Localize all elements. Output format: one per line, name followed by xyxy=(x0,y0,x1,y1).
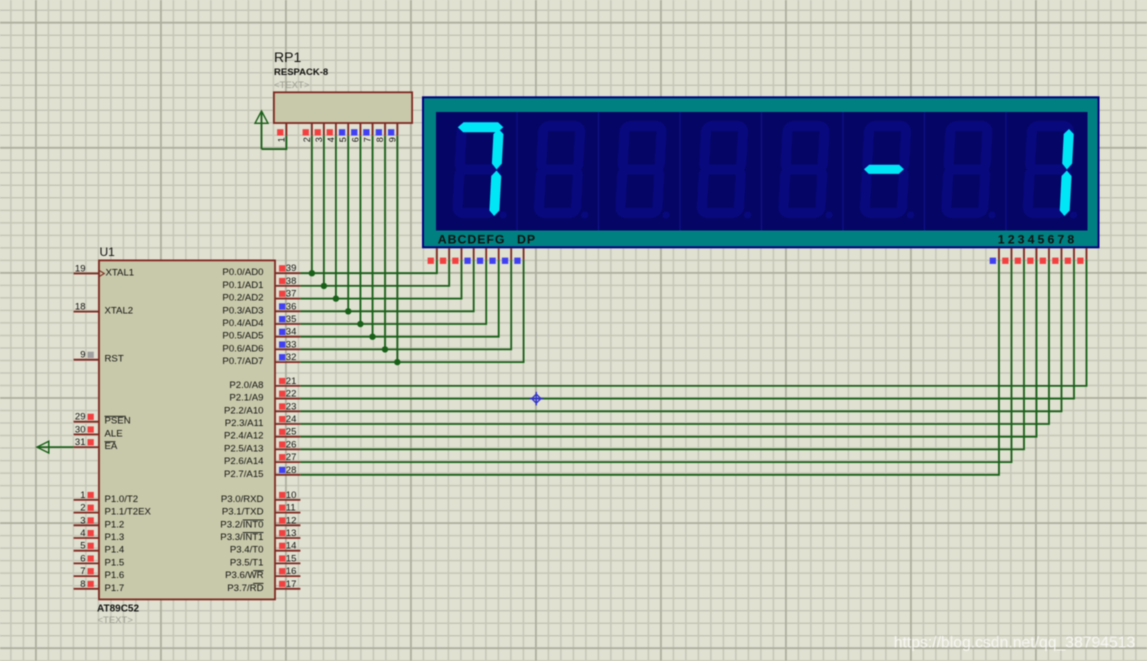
power symbol (input arrow) on EA pin 31 xyxy=(37,441,49,453)
svg-text:9: 9 xyxy=(387,137,397,142)
display digit 5 xyxy=(783,126,837,219)
svg-text:23: 23 xyxy=(286,401,297,412)
junction node P0.4 / RP1 pin 6 xyxy=(357,321,363,327)
svg-text:1: 1 xyxy=(276,137,286,142)
display digit number labels 12345678 xyxy=(998,233,1078,247)
svg-text:19: 19 xyxy=(75,264,86,275)
U1 pin 39 P0.0/AD0 xyxy=(222,263,300,278)
svg-text:P1.6: P1.6 xyxy=(105,570,125,581)
display digit 1 xyxy=(453,122,512,218)
junction node P0.0 / RP1 pin 2 xyxy=(309,270,315,276)
RP1 reference label xyxy=(274,49,301,65)
wire RP1 pin 6 vertical xyxy=(359,136,361,324)
svg-text:P2.7/A15: P2.7/A15 xyxy=(224,469,263,480)
wire RP1 pin 4 vertical xyxy=(335,136,337,299)
display digit pin 4 xyxy=(1027,248,1036,264)
svg-text:P0.5/AD5: P0.5/AD5 xyxy=(222,331,263,342)
svg-text:P3.1/TXD: P3.1/TXD xyxy=(222,507,264,518)
wire P0.0 to display segment A xyxy=(300,260,437,273)
svg-text:P0.6/AD6: P0.6/AD6 xyxy=(222,343,263,354)
wire P2.7 to display digit pin 1 xyxy=(300,260,999,475)
U1 pin 34 P0.5/AD5 xyxy=(222,327,300,342)
svg-text:P0.3/AD3: P0.3/AD3 xyxy=(222,305,263,316)
svg-text:4: 4 xyxy=(80,528,85,539)
svg-text:P0.7/AD7: P0.7/AD7 xyxy=(222,356,263,367)
wire power arrow to RP1 pin 1 xyxy=(262,136,287,149)
svg-text:29: 29 xyxy=(75,412,86,423)
U1 pin 19 XTAL1 xyxy=(74,264,135,279)
svg-text:21: 21 xyxy=(286,376,297,387)
svg-text:24: 24 xyxy=(286,414,297,425)
svg-text:P2.6/A14: P2.6/A14 xyxy=(224,456,264,467)
wire RP1 pin 8 vertical xyxy=(384,136,386,350)
U1 pin 4 P1.3 xyxy=(74,528,125,543)
display digit pin 2 xyxy=(1002,248,1011,264)
U1 pin 27 P2.6/A14 xyxy=(224,452,300,467)
svg-text:12: 12 xyxy=(286,515,297,526)
RP1 pin 6 xyxy=(350,123,360,142)
svg-text:P1.1/T2EX: P1.1/T2EX xyxy=(105,507,152,518)
U1 pin 24 P2.3/A11 xyxy=(225,414,301,429)
svg-text:RESPACK-8: RESPACK-8 xyxy=(274,67,328,78)
svg-text:P2.4/A12: P2.4/A12 xyxy=(224,431,263,442)
svg-text:<TEXT>: <TEXT> xyxy=(98,615,134,626)
MCU U1 AT89C52 body xyxy=(99,260,275,599)
wire P0.1 to display segment B xyxy=(300,260,449,286)
U1 pin 6 P1.5 xyxy=(74,553,125,568)
display segment pin C xyxy=(452,248,461,264)
display segment pin D xyxy=(464,248,473,264)
display digit pin 8 xyxy=(1077,248,1086,264)
display digit 6 xyxy=(861,126,918,219)
U1 pin 33 P0.6/AD6 xyxy=(222,339,300,354)
U1 pin 21 P2.0/A8 xyxy=(229,376,300,391)
RP1 pin 5 xyxy=(338,123,348,142)
RP1 pin 2 xyxy=(302,123,312,142)
wire P0.5 to display segment F xyxy=(300,260,498,337)
U1 pin 28 P2.7/A15 xyxy=(224,465,300,480)
U1 pin 36 P0.3/AD3 xyxy=(222,301,300,316)
U1 pin 13 P3.3/INT1 xyxy=(220,528,300,543)
U1 pin 16 P3.6/WR xyxy=(225,566,300,581)
svg-text:P3.7/RD: P3.7/RD xyxy=(227,583,263,594)
svg-text:10: 10 xyxy=(286,490,297,501)
svg-text:16: 16 xyxy=(286,566,297,577)
U1 pin 5 P1.4 xyxy=(74,541,125,556)
junction node P0.1 / RP1 pin 3 xyxy=(321,283,327,289)
svg-text:<TEXT>: <TEXT> xyxy=(274,80,310,91)
display digit pin 1 xyxy=(990,248,999,264)
U1 pin 32 P0.7/AD7 xyxy=(222,352,300,367)
svg-text:2: 2 xyxy=(302,137,312,142)
svg-text:36: 36 xyxy=(286,301,297,312)
wire P2.5 to display digit pin 3 xyxy=(300,260,1024,450)
svg-text:32: 32 xyxy=(286,352,297,363)
svg-text:34: 34 xyxy=(286,327,297,338)
svg-text:3: 3 xyxy=(80,515,85,526)
svg-text:P2.3/A11: P2.3/A11 xyxy=(225,418,264,429)
wire RP1 pin 9 vertical xyxy=(396,136,398,362)
svg-text:RP1: RP1 xyxy=(274,49,301,65)
U1 reference label xyxy=(100,245,116,259)
7-segment display body frame xyxy=(423,97,1099,247)
svg-text:P1.7: P1.7 xyxy=(105,583,125,594)
svg-text:P3.3/INT1: P3.3/INT1 xyxy=(220,532,263,543)
svg-text:22: 22 xyxy=(286,389,297,400)
svg-text:RST: RST xyxy=(105,354,124,365)
RP1 pin 9 xyxy=(387,123,397,142)
svg-text:7: 7 xyxy=(80,566,85,577)
U1 pin 31 EA xyxy=(74,437,118,452)
svg-text:DP: DP xyxy=(517,233,536,247)
svg-text:P2.5/A13: P2.5/A13 xyxy=(224,443,263,454)
RP1 pin 1 xyxy=(276,123,286,142)
U1 pin 29 PSEN xyxy=(74,412,131,427)
U1 value label AT89C52 xyxy=(97,604,139,615)
display digit pin 5 xyxy=(1040,248,1049,264)
display segment pin B xyxy=(440,248,449,264)
U1 pin 25 P2.4/A12 xyxy=(224,427,300,442)
svg-text:12345678: 12345678 xyxy=(998,233,1078,247)
svg-text:30: 30 xyxy=(75,424,86,435)
display segment pin F xyxy=(489,248,498,264)
display digit 7 xyxy=(946,126,1000,219)
U1 pin 1 P1.0/T2 xyxy=(74,490,139,505)
U1 pin 2 P1.1/T2EX xyxy=(74,503,152,518)
svg-text:P1.4: P1.4 xyxy=(105,545,125,556)
svg-text:P0.2/AD2: P0.2/AD2 xyxy=(222,293,263,304)
junction node P0.2 / RP1 pin 4 xyxy=(333,295,339,301)
U1 pin 37 P0.2/AD2 xyxy=(222,289,300,304)
U1 pin 18 XTAL2 xyxy=(74,302,134,317)
U1 pin 26 P2.5/A13 xyxy=(224,439,300,454)
svg-text:U1: U1 xyxy=(100,245,116,259)
display segment name labels ABCDEFG DP xyxy=(438,233,536,247)
svg-text:P1.2: P1.2 xyxy=(105,519,125,530)
svg-text:ABCDEFG: ABCDEFG xyxy=(438,233,506,247)
RP1 pin 7 xyxy=(363,123,373,142)
display digit 3 xyxy=(620,126,674,219)
wire P0.2 to display segment C xyxy=(300,260,461,299)
power symbol (vcc arrow) for RP1 pin 1 xyxy=(255,111,268,149)
svg-text:6: 6 xyxy=(350,137,360,142)
svg-text:18: 18 xyxy=(75,302,86,313)
display segment pin E xyxy=(477,248,486,264)
display digit 8 xyxy=(1027,126,1081,219)
svg-text:P3.2/INT0: P3.2/INT0 xyxy=(220,519,263,530)
svg-text:P2.1/A9: P2.1/A9 xyxy=(229,393,263,404)
junction node P0.6 / RP1 pin 8 xyxy=(382,346,388,352)
wire P2.3 to display digit pin 5 xyxy=(300,260,1049,424)
svg-text:27: 27 xyxy=(286,452,297,463)
U1 pin 30 ALE xyxy=(74,424,123,439)
display segment pin DP xyxy=(514,248,523,264)
wire RP1 pin 3 vertical xyxy=(323,136,325,286)
wire P0.7 to display segment DP xyxy=(300,260,523,362)
U1 pin 7 P1.6 xyxy=(74,566,125,581)
U1 pin 3 P1.2 xyxy=(74,515,125,530)
resistor pack RP1 body xyxy=(274,92,412,123)
wire P0.4 to display segment E xyxy=(300,260,486,324)
svg-text:11: 11 xyxy=(286,503,296,514)
U1 pin 10 P3.0/RXD xyxy=(221,490,301,505)
U1 pin 12 P3.2/INT0 xyxy=(220,515,300,530)
U1 pin 23 P2.2/A10 xyxy=(224,401,300,416)
U1 pin 14 P3.4/T0 xyxy=(230,541,301,556)
wire P0.3 to display segment D xyxy=(300,260,473,312)
U1 pin 38 P0.1/AD1 xyxy=(222,276,300,291)
svg-text:P0.4/AD4: P0.4/AD4 xyxy=(222,318,264,329)
svg-text:https://blog.csdn.net/qq_38794: https://blog.csdn.net/qq_38794513 xyxy=(894,635,1135,652)
RP1 pin 3 xyxy=(314,123,324,142)
display digit pin 6 xyxy=(1052,248,1061,264)
svg-text:28: 28 xyxy=(286,465,297,476)
display digit cell separators xyxy=(517,112,1006,231)
wire P2.6 to display digit pin 2 xyxy=(300,260,1011,462)
wire P0.6 to display segment G xyxy=(300,260,511,350)
wire RP1 pin 2 vertical xyxy=(311,136,313,274)
wire P2.1 to display digit pin 7 xyxy=(300,260,1074,399)
svg-text:15: 15 xyxy=(286,553,297,564)
wire P2.4 to display digit pin 4 xyxy=(300,260,1036,437)
svg-text:17: 17 xyxy=(286,579,297,590)
svg-text:P1.5: P1.5 xyxy=(105,557,125,568)
svg-text:25: 25 xyxy=(286,427,297,438)
svg-text:5: 5 xyxy=(338,137,348,142)
svg-text:P2.0/A8: P2.0/A8 xyxy=(229,380,263,391)
svg-text:7: 7 xyxy=(363,137,373,142)
svg-text:35: 35 xyxy=(286,314,297,325)
junction node P0.3 / RP1 pin 5 xyxy=(345,308,351,314)
svg-text:4: 4 xyxy=(326,137,336,142)
svg-text:P1.0/T2: P1.0/T2 xyxy=(105,494,139,505)
junction node P0.7 / RP1 pin 9 xyxy=(394,359,400,365)
display digit 2 xyxy=(538,126,592,219)
svg-text:3: 3 xyxy=(314,137,324,142)
svg-text:P2.2/A10: P2.2/A10 xyxy=(224,405,263,416)
U1 property label xyxy=(98,615,134,626)
svg-text:ALE: ALE xyxy=(105,428,123,439)
svg-text:P1.3: P1.3 xyxy=(105,532,125,543)
svg-text:8: 8 xyxy=(375,137,385,142)
svg-text:31: 31 xyxy=(75,437,86,448)
wire P2.2 to display digit pin 6 xyxy=(300,260,1061,412)
U1 pin 17 P3.7/RD xyxy=(227,579,300,594)
RP1 pin 8 xyxy=(375,123,385,142)
svg-text:37: 37 xyxy=(286,289,297,300)
svg-text:9: 9 xyxy=(80,350,85,361)
svg-text:13: 13 xyxy=(286,528,297,539)
svg-text:33: 33 xyxy=(286,339,297,350)
RP1 pin 4 xyxy=(326,123,336,142)
svg-text:P3.0/RXD: P3.0/RXD xyxy=(221,494,264,505)
display digit pin 7 xyxy=(1065,248,1074,264)
U1 pin 15 P3.5/T1 xyxy=(230,553,301,568)
svg-text:26: 26 xyxy=(286,439,297,450)
svg-text:P3.5/T1: P3.5/T1 xyxy=(230,557,264,568)
origin marker node xyxy=(530,392,544,406)
svg-text:39: 39 xyxy=(286,263,297,274)
display digit pin 3 xyxy=(1015,248,1024,264)
U1 pin 22 P2.1/A9 xyxy=(229,389,300,404)
U1 pin 8 P1.7 xyxy=(74,579,125,594)
svg-text:XTAL1: XTAL1 xyxy=(106,268,135,279)
display segment pin A xyxy=(428,248,437,264)
display segment pin G xyxy=(502,248,511,264)
RP1 property label xyxy=(274,80,310,91)
svg-text:1: 1 xyxy=(80,490,85,501)
svg-text:2: 2 xyxy=(80,503,85,514)
wire EA arrow to pin 31 xyxy=(37,446,74,448)
wire P2.0 to display digit pin 8 xyxy=(300,260,1086,386)
svg-text:PSEN: PSEN xyxy=(105,416,131,427)
svg-text:XTAL2: XTAL2 xyxy=(105,306,134,317)
wire RP1 pin 5 vertical xyxy=(347,136,349,312)
svg-text:AT89C52: AT89C52 xyxy=(97,604,139,615)
svg-text:P3.4/T0: P3.4/T0 xyxy=(230,545,264,556)
svg-text:P0.0/AD0: P0.0/AD0 xyxy=(222,267,263,278)
junction node P0.5 / RP1 pin 7 xyxy=(369,334,375,340)
svg-text:5: 5 xyxy=(80,541,85,552)
svg-text:P0.1/AD1: P0.1/AD1 xyxy=(222,280,263,291)
svg-text:14: 14 xyxy=(286,541,297,552)
svg-text:38: 38 xyxy=(286,276,297,287)
svg-text:P3.6/WR: P3.6/WR xyxy=(225,570,263,581)
svg-text:EA: EA xyxy=(105,441,118,452)
U1 pin 11 P3.1/TXD xyxy=(222,503,300,518)
RP1 value label RESPACK-8 xyxy=(274,67,328,78)
watermark text xyxy=(894,635,1135,652)
U1 pin 35 P0.4/AD4 xyxy=(222,314,300,329)
svg-text:8: 8 xyxy=(80,579,85,590)
display digit 4 xyxy=(701,126,755,219)
svg-text:6: 6 xyxy=(80,553,85,564)
U1 pin 9 RST xyxy=(74,350,124,365)
wire RP1 pin 7 vertical xyxy=(372,136,374,337)
